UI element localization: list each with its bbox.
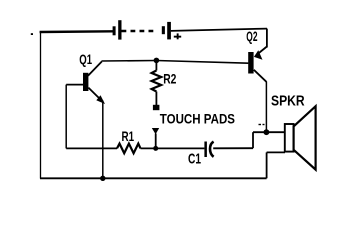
svg-text:Q2: Q2 bbox=[246, 28, 257, 44]
svg-text:R2: R2 bbox=[163, 70, 176, 86]
svg-text:TOUCH PADS: TOUCH PADS bbox=[160, 110, 235, 126]
svg-text:R1: R1 bbox=[122, 128, 135, 144]
svg-text:SPKR: SPKR bbox=[271, 93, 305, 110]
svg-text:Q1: Q1 bbox=[79, 51, 92, 67]
svg-text:C1: C1 bbox=[188, 151, 201, 168]
